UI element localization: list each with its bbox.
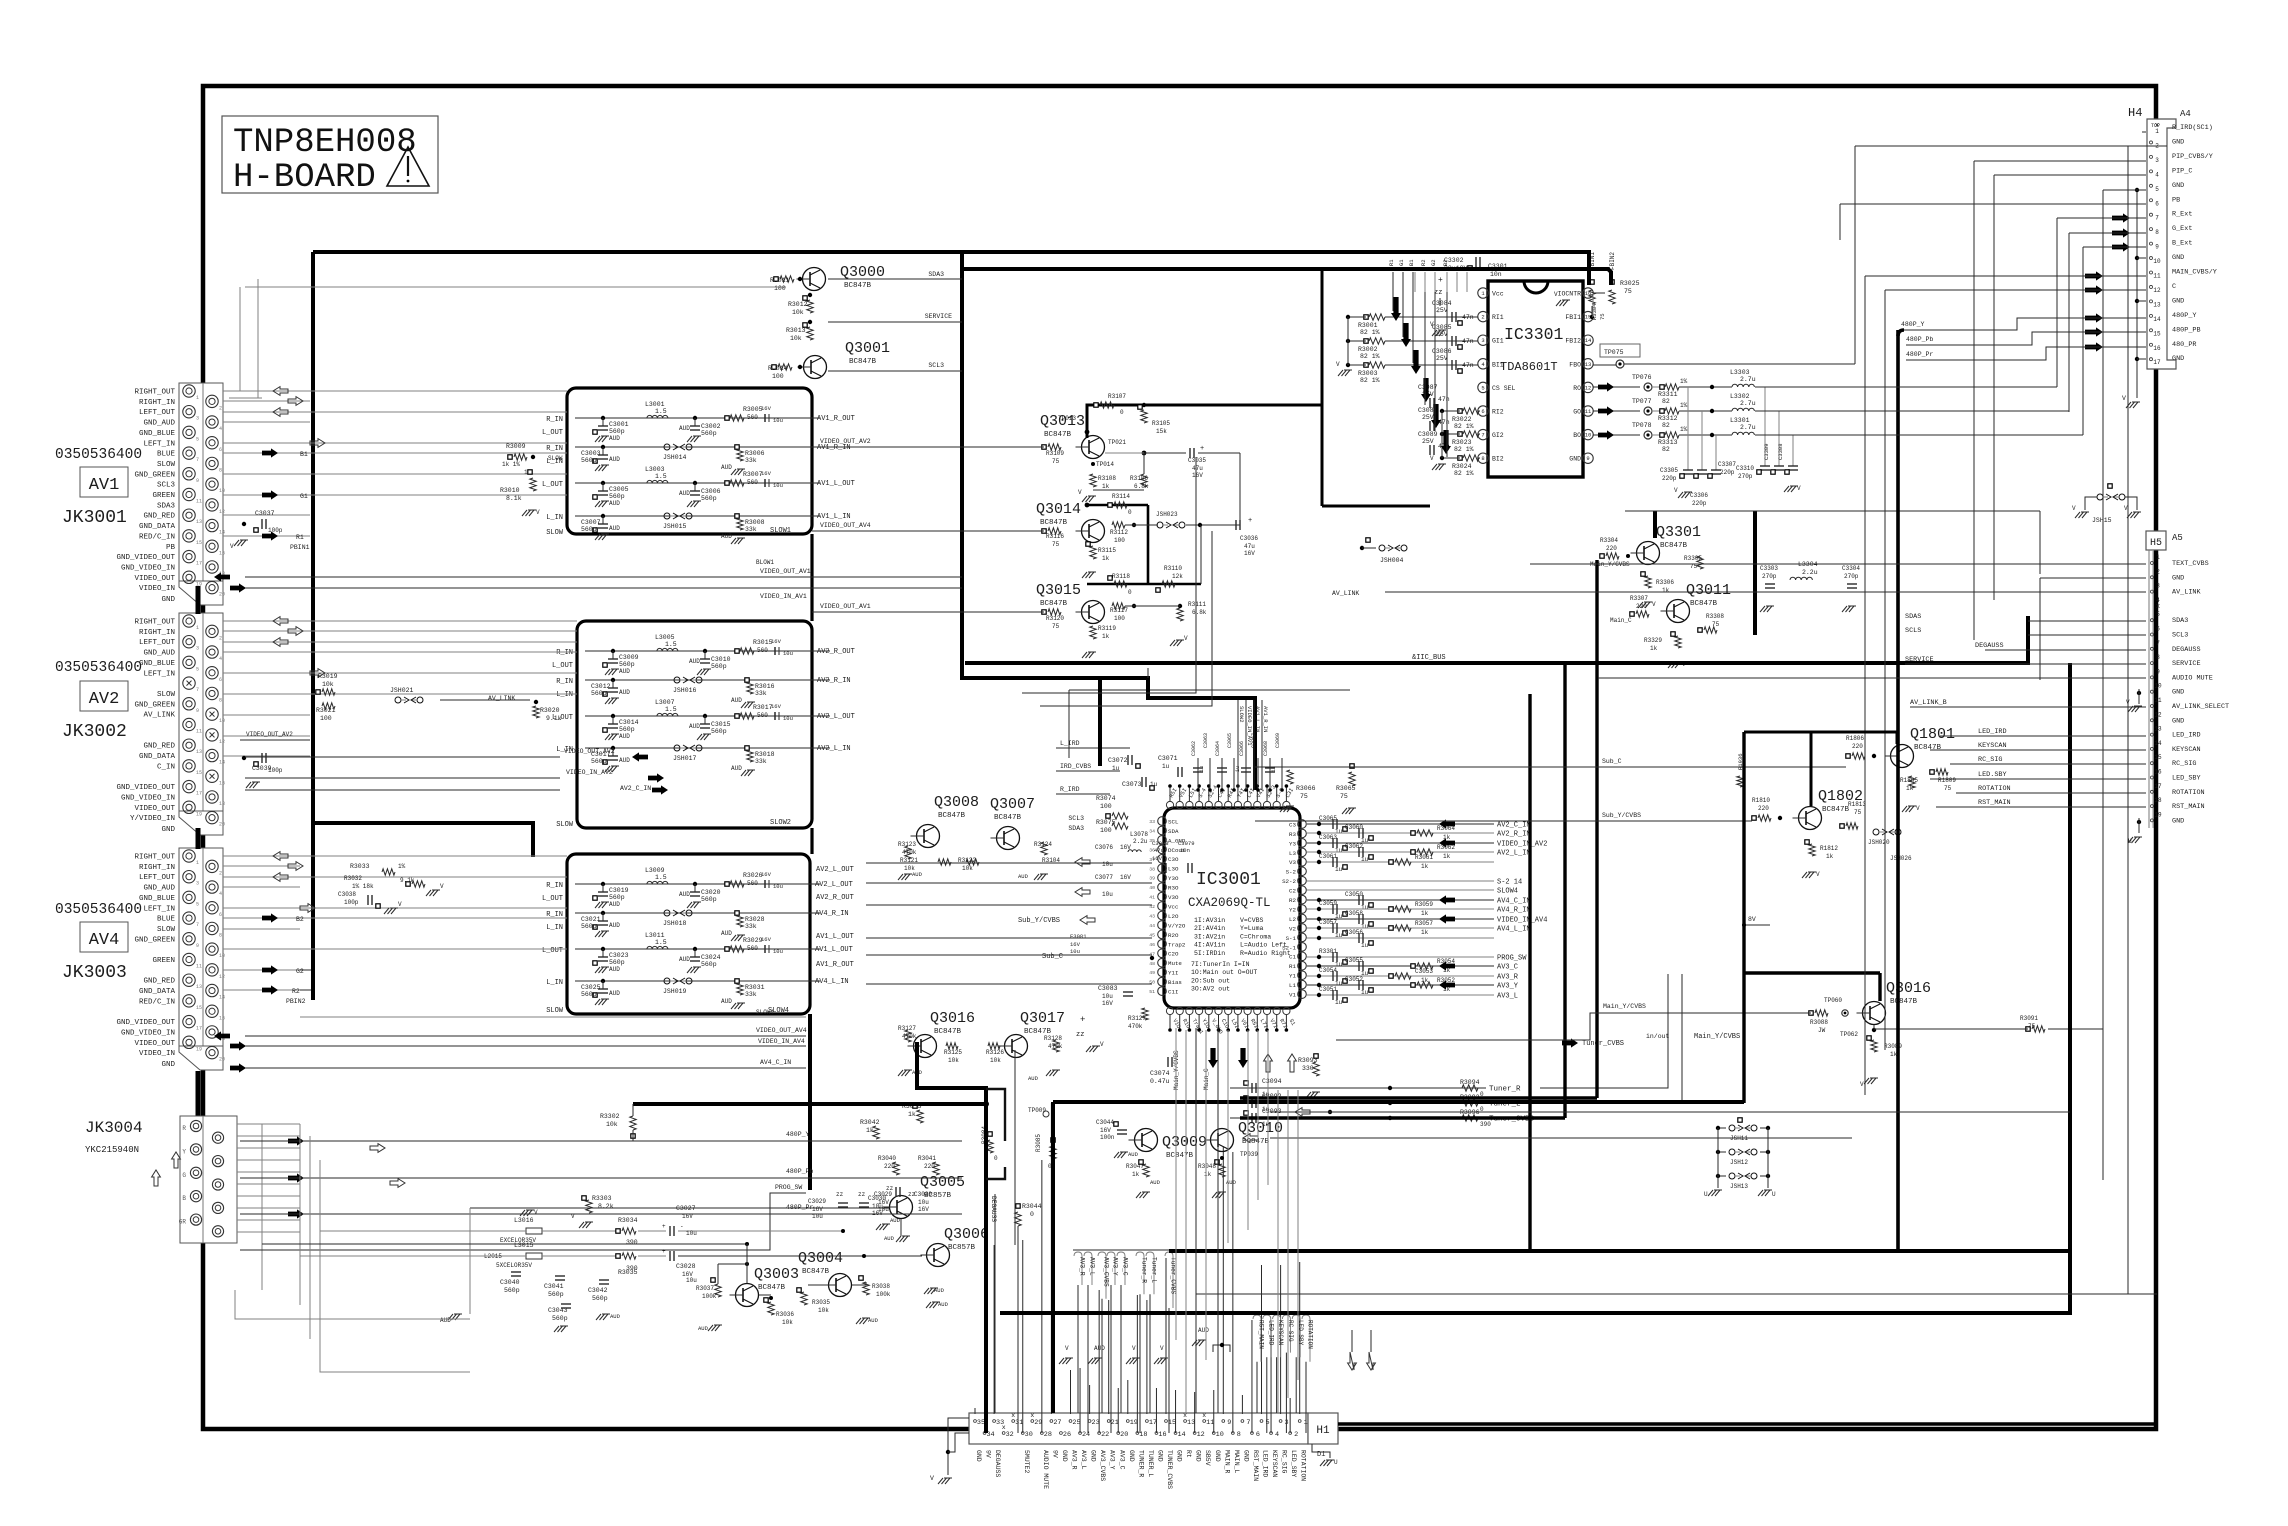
- svg-text:AUD: AUD: [721, 998, 732, 1005]
- down open arrows right of H1: [1348, 1352, 1357, 1370]
- svg-text:BC847B: BC847B: [1044, 431, 1072, 439]
- svg-text:GND: GND: [161, 826, 175, 834]
- svg-text:AUD: AUD: [689, 658, 700, 665]
- svg-text:F3081: F3081: [1070, 933, 1087, 940]
- svg-text:6: 6: [219, 677, 222, 683]
- svg-text:15k: 15k: [1156, 428, 1167, 435]
- svg-text:G2: G2: [296, 968, 304, 975]
- svg-text:6: 6: [219, 447, 222, 453]
- svg-text:AUD: AUD: [721, 464, 732, 471]
- svg-text:100: 100: [1114, 615, 1125, 622]
- svg-text:TP013: TP013: [1058, 415, 1076, 422]
- svg-text:470k: 470k: [1128, 1023, 1143, 1030]
- svg-text:GND_BLUE: GND_BLUE: [139, 430, 176, 438]
- TP075 testpoint: [1600, 344, 1640, 357]
- svg-text:12: 12: [2153, 287, 2161, 294]
- svg-text:B2: B2: [296, 916, 304, 923]
- svg-text:3: 3: [2155, 157, 2159, 164]
- svg-text:AV2_R_OUT: AV2_R_OUT: [816, 894, 854, 902]
- transistor Q3017: [1005, 1035, 1028, 1058]
- thick down arrows col1: [1391, 297, 1401, 321]
- svg-text:AV1_L_OUT: AV1_L_OUT: [816, 933, 854, 941]
- svg-text:C3003: C3003: [581, 450, 601, 457]
- svg-text:zz: zz: [858, 1191, 866, 1198]
- svg-text:AV1_L_OUT: AV1_L_OUT: [817, 480, 855, 488]
- wires Q3000/Q3001 to right: [299, 252, 301, 287]
- svg-text:V3: V3: [1289, 859, 1296, 866]
- svg-text:R3042: R3042: [860, 1119, 880, 1126]
- svg-text:AUDIO MUTE: AUDIO MUTE: [1042, 1450, 1049, 1489]
- svg-text:LED_IRD: LED_IRD: [1267, 1320, 1274, 1346]
- svg-text:SLOW: SLOW: [548, 455, 563, 462]
- svg-text:LEFT_OUT: LEFT_OUT: [139, 874, 176, 882]
- svg-text:AV3_L: AV3_L: [1080, 1450, 1087, 1470]
- svg-text:-: -: [1436, 308, 1441, 317]
- svg-text:C3056: C3056: [1345, 929, 1363, 936]
- svg-text:34: 34: [1149, 828, 1155, 834]
- svg-text:100n: 100n: [1100, 1134, 1115, 1141]
- thick bus second rail y=269: [962, 269, 1611, 285]
- svg-text:Tuner_L: Tuner_L: [1151, 1257, 1158, 1283]
- svg-text:L_IN: L_IN: [546, 979, 563, 987]
- verticals above IC3001 with rotated net labels: [1237, 700, 1239, 790]
- svg-text:AV4_L_IN: AV4_L_IN: [815, 978, 849, 986]
- svg-text:R1: R1: [1388, 259, 1395, 266]
- svg-text:AUD: AUD: [679, 490, 690, 497]
- transistor Q3005: [890, 1196, 913, 1219]
- svg-text:YKC215940N: YKC215940N: [85, 1145, 139, 1155]
- svg-text:C3053: C3053: [1415, 968, 1433, 975]
- svg-text:BC857B: BC857B: [948, 1244, 976, 1252]
- svg-text:L_OUT: L_OUT: [542, 947, 563, 955]
- svg-text:R3026: R3026: [743, 872, 763, 879]
- svg-text:R3005: R3005: [743, 406, 763, 413]
- svg-text:82 1%: 82 1%: [1454, 423, 1474, 430]
- svg-text:19: 19: [1130, 1419, 1138, 1427]
- svg-text:4: 4: [219, 656, 222, 662]
- svg-text:15: 15: [196, 540, 202, 546]
- label AV1 box: [80, 467, 128, 497]
- svg-text:R2: R2: [292, 988, 300, 995]
- svg-text:R3094: R3094: [1460, 1079, 1480, 1086]
- svg-text:C3051: C3051: [1319, 986, 1337, 993]
- svg-text:L3301: L3301: [1730, 417, 1750, 424]
- Q3013 zone vertical C3036 feed: [1239, 453, 1241, 525]
- svg-text:C1: C1: [1289, 954, 1296, 961]
- svg-text:10: 10: [1585, 432, 1592, 439]
- svg-text:V: V: [534, 1209, 538, 1216]
- svg-text:L_IN: L_IN: [546, 924, 563, 932]
- svg-text:+: +: [1200, 445, 1204, 453]
- svg-text:1.5: 1.5: [655, 874, 667, 881]
- svg-text:TDA8601T: TDA8601T: [1500, 360, 1558, 374]
- wires VIDEO_OUT_AV4 long to Q3014: [812, 530, 1044, 532]
- svg-text:x: x: [1002, 1424, 1006, 1431]
- svg-text:560p: 560p: [619, 726, 635, 733]
- svg-text:16V: 16V: [761, 936, 772, 943]
- svg-text:7: 7: [1246, 1419, 1250, 1427]
- H4 feed arrows: [2112, 213, 2130, 222]
- svg-text:C3002: C3002: [701, 423, 721, 430]
- svg-text:G1: G1: [1398, 259, 1405, 266]
- svg-text:C3089: C3089: [1418, 431, 1438, 438]
- svg-text:AUD: AUD: [1018, 873, 1029, 880]
- svg-text:AV2_L_OUT: AV2_L_OUT: [816, 866, 854, 874]
- svg-text:16: 16: [219, 1015, 225, 1021]
- svg-text:480P_PB: 480P_PB: [2172, 326, 2201, 334]
- svg-text:L3016: L3016: [514, 1217, 534, 1224]
- svg-text:LED_IRD: LED_IRD: [1978, 728, 2007, 736]
- svg-text:AV3_L: AV3_L: [1089, 1257, 1096, 1276]
- svg-text:AUD: AUD: [619, 757, 630, 764]
- svg-text:R3028: R3028: [745, 916, 765, 923]
- svg-text:R3111: R3111: [1188, 601, 1206, 608]
- svg-text:GND: GND: [2172, 182, 2184, 190]
- AV1 filter block: [567, 388, 812, 534]
- svg-text:19: 19: [2154, 811, 2162, 818]
- svg-text:TUNER_CVBS: TUNER_CVBS: [1166, 1450, 1173, 1489]
- svg-text:75: 75: [1052, 458, 1060, 465]
- svg-text:480_PR: 480_PR: [2172, 341, 2196, 349]
- svg-text:12: 12: [1585, 384, 1592, 391]
- svg-text:2.2u: 2.2u: [1802, 569, 1818, 576]
- svg-text:2: 2: [219, 635, 222, 641]
- IC3301 pins: [1478, 288, 1488, 298]
- svg-text:AV2_R_IN: AV2_R_IN: [1497, 831, 1531, 839]
- H4 480P rows: [1904, 318, 2146, 330]
- svg-text:C=Chroma: C=Chroma: [1240, 933, 1271, 940]
- svg-text:C3015: C3015: [711, 721, 731, 728]
- svg-text:AUD: AUD: [884, 1235, 895, 1242]
- svg-text:C3040: C3040: [500, 1279, 520, 1286]
- svg-text:RI1: RI1: [1492, 314, 1504, 321]
- svg-text:x: x: [1030, 1412, 1034, 1419]
- svg-text:14: 14: [219, 995, 225, 1001]
- svg-text:AV2_L_IN: AV2_L_IN: [1497, 850, 1531, 858]
- svg-text:+: +: [1248, 517, 1252, 525]
- svg-text:AV3_R: AV3_R: [1079, 1257, 1086, 1276]
- svg-text:C3074: C3074: [1150, 1070, 1170, 1077]
- svg-text:100p: 100p: [268, 767, 283, 774]
- thick bus y=1251: [1169, 1249, 2070, 1253]
- arrows near JK3004 region: [370, 1144, 385, 1153]
- svg-text:100: 100: [1114, 537, 1125, 544]
- svg-text:33k: 33k: [745, 526, 757, 533]
- svg-text:R3311: R3311: [1658, 391, 1678, 398]
- svg-text:H4: H4: [2128, 106, 2142, 120]
- svg-text:R3007: R3007: [743, 471, 763, 478]
- thick bus top rail y=252: [313, 252, 1589, 285]
- svg-text:C3063: C3063: [1203, 733, 1209, 748]
- RO GO BO long rows to verticals: [1755, 386, 2057, 388]
- op-amp IC3001 body: [1164, 808, 1300, 1008]
- svg-text:AUD: AUD: [609, 525, 620, 532]
- svg-text:R_IN: R_IN: [556, 678, 573, 686]
- svg-text:RST_MAIN: RST_MAIN: [1252, 1450, 1259, 1481]
- svg-text:C3066: C3066: [1239, 741, 1245, 756]
- svg-text:L_OUT: L_OUT: [542, 895, 563, 903]
- svg-text:GND_DATA: GND_DATA: [139, 523, 176, 531]
- jumper JSH15: [2097, 494, 2103, 500]
- svg-text:RC_SIG: RC_SIG: [1978, 756, 2002, 764]
- svg-text:3O:AV2 out: 3O:AV2 out: [1191, 986, 1230, 993]
- svg-text:AUD: AUD: [679, 425, 690, 432]
- svg-text:390: 390: [626, 1265, 638, 1272]
- svg-text:10n: 10n: [1180, 847, 1190, 854]
- svg-text:270p: 270p: [1762, 573, 1777, 580]
- svg-text:AV4: AV4: [89, 931, 120, 950]
- svg-text:C3005: C3005: [609, 486, 629, 493]
- svg-text:C3006: C3006: [701, 488, 721, 495]
- svg-text:VIDEO_OUT_AV1: VIDEO_OUT_AV1: [820, 603, 871, 610]
- svg-text:L2: L2: [1289, 916, 1296, 923]
- svg-text:MAIN_R: MAIN_R: [1223, 1450, 1230, 1474]
- svg-text:R3016: R3016: [755, 683, 775, 690]
- svg-text:V3O: V3O: [1168, 894, 1179, 901]
- svg-text:S2-2: S2-2: [1282, 878, 1296, 885]
- svg-text:AUD: AUD: [609, 990, 620, 997]
- svg-text:10k: 10k: [322, 681, 334, 688]
- svg-text:Y1I: Y1I: [1168, 970, 1178, 977]
- svg-text:L3O: L3O: [1168, 866, 1179, 873]
- thin vertical x=2040 upper: [2039, 511, 2041, 574]
- svg-text:1%: 1%: [398, 863, 406, 870]
- svg-text:S-2: S-2: [1286, 869, 1297, 876]
- thick bus y=1104: [633, 1102, 986, 1106]
- svg-text:AV_LINK: AV_LINK: [1332, 590, 1359, 597]
- svg-text:BLUE: BLUE: [157, 451, 176, 459]
- svg-text:RC_SIG: RC_SIG: [1281, 1450, 1288, 1474]
- svg-text:L3009: L3009: [645, 867, 665, 874]
- svg-text:0: 0: [1128, 589, 1132, 596]
- IC3001 bottom tuner rows: [1230, 1087, 1486, 1089]
- svg-text:82 1%: 82 1%: [1454, 470, 1474, 477]
- svg-text:H1: H1: [1316, 1425, 1330, 1437]
- svg-text:R3091: R3091: [2020, 1015, 2038, 1022]
- svg-text:GND_DATA: GND_DATA: [139, 988, 176, 996]
- svg-text:38: 38: [1149, 866, 1155, 872]
- svg-text:AUD: AUD: [679, 956, 690, 963]
- svg-text:47u: 47u: [1192, 465, 1203, 472]
- svg-text:22: 22: [1101, 1431, 1109, 1439]
- svg-text:Q3014: Q3014: [1036, 501, 1081, 518]
- thick bus y=1098: [1240, 1096, 1597, 1099]
- svg-text:GND: GND: [1242, 1450, 1249, 1462]
- svg-text:SDA3: SDA3: [1068, 825, 1084, 832]
- svg-text:KEYSCAN: KEYSCAN: [1271, 1450, 1278, 1477]
- svg-text:8V: 8V: [1748, 916, 1756, 923]
- svg-text:C2O: C2O: [1168, 951, 1179, 958]
- svg-text:4I:AV1in: 4I:AV1in: [1194, 942, 1225, 949]
- arrow into Q3009 region: [1295, 1108, 1310, 1117]
- svg-text:Q3007: Q3007: [990, 796, 1035, 813]
- svg-text:L_OUT: L_OUT: [552, 662, 573, 670]
- svg-text:1k: 1k: [866, 1127, 874, 1134]
- svg-text:R3040: R3040: [878, 1155, 896, 1162]
- svg-text:GND_AUD: GND_AUD: [143, 420, 175, 428]
- svg-text:KEYSCAN: KEYSCAN: [2172, 746, 2201, 754]
- svg-text:AV1_R_IN: AV1_R_IN: [1262, 706, 1269, 732]
- svg-text:1k: 1k: [1421, 910, 1429, 917]
- svg-text:C3303: C3303: [1760, 565, 1778, 572]
- svg-text:1: 1: [2156, 554, 2160, 561]
- svg-text:1%: 1%: [1680, 378, 1688, 385]
- svg-text:9: 9: [1227, 1419, 1231, 1427]
- svg-text:CS SEL: CS SEL: [1492, 385, 1516, 392]
- svg-text:Q3017: Q3017: [1020, 1010, 1065, 1027]
- svg-text:B: B: [182, 1195, 186, 1202]
- thick bus Q3301 frame: [1653, 511, 1657, 538]
- svg-text:R3301: R3301: [1319, 948, 1337, 955]
- svg-text:10u: 10u: [1102, 993, 1113, 1000]
- svg-text:R_IN: R_IN: [546, 416, 563, 424]
- svg-text:C3025: C3025: [581, 984, 601, 991]
- svg-text:BC847B: BC847B: [844, 282, 872, 290]
- tuner rows corner-up wires: [1540, 974, 1668, 1088]
- svg-text:GND_VIDEO_OUT: GND_VIDEO_OUT: [116, 1019, 175, 1027]
- svg-text:R3031: R3031: [745, 984, 765, 991]
- svg-text:U: U: [1704, 1191, 1708, 1198]
- svg-text:R: R: [182, 1125, 186, 1132]
- svg-text:GND_GREEN: GND_GREEN: [134, 471, 175, 479]
- svg-text:GND: GND: [1061, 1450, 1068, 1462]
- svg-text:480P_Pb: 480P_Pb: [786, 1168, 813, 1175]
- svg-text:PBIN2: PBIN2: [286, 998, 306, 1005]
- svg-text:x: x: [2156, 603, 2160, 611]
- svg-text:C3020: C3020: [701, 889, 721, 896]
- svg-text:21: 21: [1111, 1419, 1119, 1427]
- svg-text:L3015: L3015: [514, 1242, 534, 1249]
- svg-text:DEGAUSS: DEGAUSS: [1975, 642, 2004, 650]
- svg-text:SLOW: SLOW: [157, 926, 176, 934]
- svg-text:Q3010: Q3010: [1238, 1120, 1283, 1137]
- svg-text:C3076: C3076: [1095, 844, 1113, 851]
- svg-text:5: 5: [1265, 1419, 1269, 1427]
- op-amp IC3301 body: [1488, 281, 1583, 477]
- svg-text:L3001: L3001: [645, 401, 665, 408]
- svg-text:AV3_Y: AV3_Y: [1109, 1450, 1116, 1470]
- svg-text:x: x: [1183, 1412, 1187, 1419]
- svg-text:AV_LINK: AV_LINK: [143, 712, 175, 720]
- svg-text:PIP_C: PIP_C: [2172, 167, 2192, 175]
- svg-text:DEGAUSS: DEGAUSS: [994, 1450, 1001, 1477]
- svg-text:GREEN: GREEN: [152, 492, 175, 500]
- svg-text:R3023: R3023: [1452, 439, 1472, 446]
- wire arrows AV1: [273, 387, 288, 396]
- svg-text:10: 10: [219, 488, 225, 494]
- svg-text:AUD: AUD: [610, 1313, 621, 1320]
- svg-text:10u: 10u: [686, 1230, 697, 1237]
- svg-text:9: 9: [2155, 244, 2159, 251]
- svg-text:10u: 10u: [1070, 948, 1080, 955]
- svg-text:220p: 220p: [1720, 469, 1735, 476]
- svg-text:L3011: L3011: [645, 932, 665, 939]
- svg-text:5: 5: [1481, 384, 1484, 391]
- svg-text:x: x: [1202, 1412, 1206, 1419]
- connector JK3002 AV2: [179, 613, 223, 811]
- svg-text:82: 82: [1662, 446, 1670, 453]
- svg-text:C3035: C3035: [1188, 457, 1206, 464]
- jumpers JSH11 JSH12 JSH13: [1729, 1125, 1735, 1131]
- svg-text:C: C: [2172, 283, 2176, 291]
- svg-text:R3002: R3002: [1358, 346, 1378, 353]
- svg-text:1k: 1k: [908, 1111, 916, 1118]
- svg-text:10k: 10k: [606, 1121, 618, 1128]
- svg-text:R3024: R3024: [1452, 463, 1472, 470]
- svg-text:LEFT_IN: LEFT_IN: [143, 905, 175, 913]
- wires AV2 to filter block: [223, 620, 577, 622]
- caps C3309 C3310: [1764, 387, 1766, 466]
- thick vertical x=1530: [1528, 694, 1531, 1251]
- svg-text:SDA3: SDA3: [2172, 617, 2188, 625]
- wire AV4 video rows: [214, 1031, 230, 1040]
- svg-text:GND: GND: [1176, 1450, 1183, 1462]
- svg-text:RIGHT_OUT: RIGHT_OUT: [134, 389, 175, 397]
- svg-text:RIGHT_OUT: RIGHT_OUT: [134, 854, 175, 862]
- svg-text:33k: 33k: [755, 758, 767, 765]
- svg-text:480P_Y: 480P_Y: [2172, 312, 2196, 320]
- svg-text:75: 75: [1599, 313, 1606, 320]
- transistor Q3011: [1667, 600, 1690, 623]
- svg-text:BO: BO: [1573, 432, 1581, 439]
- svg-text:82 1%: 82 1%: [1360, 353, 1380, 360]
- svg-text:+: +: [662, 1223, 666, 1230]
- svg-text:560p: 560p: [701, 495, 717, 502]
- svg-text:1u: 1u: [1361, 942, 1369, 949]
- svg-text:BI2: BI2: [1492, 456, 1504, 463]
- svg-text:AV2_C_IN: AV2_C_IN: [620, 785, 651, 792]
- svg-text:FBIN2: FBIN2: [1609, 252, 1616, 270]
- svg-text:29: 29: [1034, 1419, 1042, 1427]
- svg-text:C3068: C3068: [1263, 741, 1269, 756]
- svg-text:31: 31: [1015, 1419, 1023, 1427]
- svg-text:12: 12: [219, 974, 225, 980]
- svg-text:zz: zz: [886, 1185, 894, 1192]
- svg-text:82: 82: [1662, 398, 1670, 405]
- svg-text:AUD: AUD: [938, 1301, 949, 1308]
- svg-text:V: V: [1554, 291, 1558, 298]
- svg-text:R3O: R3O: [1168, 885, 1179, 892]
- svg-text:11: 11: [2153, 273, 2161, 280]
- svg-text:SDA: SDA: [1168, 828, 1179, 835]
- svg-text:C3061: C3061: [1319, 853, 1337, 860]
- PROG_SW net drop: [961, 1103, 963, 1148]
- svg-text:19: 19: [196, 811, 202, 817]
- svg-text:3: 3: [196, 881, 199, 887]
- thick bus y=678 to IC3001: [1100, 678, 1255, 790]
- svg-text:Rt: Rt: [1185, 1450, 1192, 1458]
- svg-text:V: V: [571, 1213, 575, 1220]
- svg-text:3I:AV2in: 3I:AV2in: [1194, 933, 1225, 940]
- svg-text:V: V: [930, 1475, 934, 1482]
- svg-text:in/out: in/out: [1646, 1033, 1670, 1040]
- svg-text:IOCNTR: IOCNTR: [1558, 291, 1582, 298]
- svg-text:GND: GND: [2172, 817, 2184, 825]
- svg-text:9V: 9V: [985, 1450, 992, 1458]
- svg-text:C3071: C3071: [1158, 755, 1178, 762]
- svg-text:560p: 560p: [592, 1295, 608, 1302]
- svg-text:R3041: R3041: [918, 1155, 936, 1162]
- svg-text:BC847B: BC847B: [1040, 600, 1068, 608]
- svg-text:V: V: [230, 543, 234, 550]
- svg-text:AV_LINK: AV_LINK: [2172, 589, 2201, 597]
- svg-text:16V: 16V: [761, 405, 772, 412]
- svg-text:C3078: C3078: [1152, 840, 1169, 847]
- svg-text:2O:Sub out: 2O:Sub out: [1191, 977, 1230, 984]
- svg-text:PROG_SW: PROG_SW: [1497, 955, 1527, 963]
- svg-text:270p: 270p: [1844, 573, 1859, 580]
- svg-text:BI1: BI1: [1492, 361, 1504, 368]
